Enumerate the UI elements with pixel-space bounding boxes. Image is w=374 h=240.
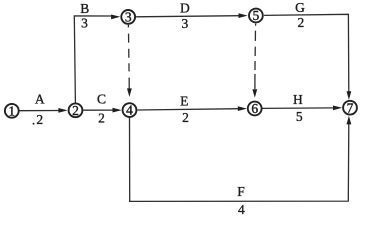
- svg-text:7: 7: [347, 100, 354, 115]
- svg-text:2: 2: [298, 15, 305, 30]
- svg-text:3: 3: [81, 15, 88, 30]
- svg-text:6: 6: [251, 101, 258, 116]
- svg-text:2: 2: [72, 103, 79, 118]
- svg-text:2: 2: [182, 110, 189, 125]
- svg-text:5: 5: [296, 109, 303, 124]
- svg-text:G: G: [295, 0, 305, 15]
- svg-text:4: 4: [238, 202, 245, 217]
- svg-text:A: A: [35, 92, 45, 107]
- svg-text:C: C: [97, 92, 106, 107]
- svg-text:E: E: [180, 93, 188, 108]
- svg-text:.: .: [32, 113, 35, 128]
- svg-text:5: 5: [253, 8, 260, 23]
- svg-text:4: 4: [126, 103, 133, 118]
- svg-text:D: D: [180, 1, 190, 16]
- svg-text:2: 2: [98, 110, 105, 125]
- svg-text:3: 3: [182, 16, 189, 31]
- svg-text:1: 1: [8, 103, 15, 118]
- svg-text:3: 3: [125, 10, 132, 25]
- svg-text:2: 2: [36, 112, 43, 127]
- svg-text:H: H: [293, 92, 303, 107]
- svg-text:B: B: [80, 1, 89, 16]
- svg-text:F: F: [237, 184, 245, 199]
